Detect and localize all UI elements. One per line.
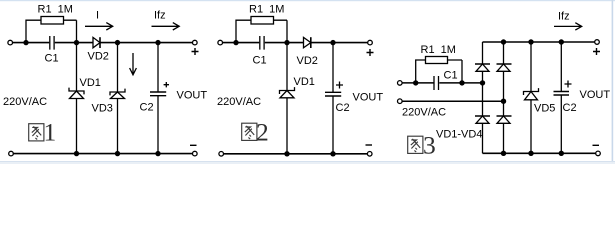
wire: fig3 bottom rail [483, 152, 596, 154]
diode VD2 (fig3 bridge leg2 upper) [503, 42, 505, 64]
svg-text:VD1-VD4: VD1-VD4 [436, 129, 482, 141]
node: fig3 bridge leg2 midpoint [501, 99, 506, 104]
node: fig3 bottom rail at C2 [559, 151, 564, 156]
terminal: fig1 output minus [193, 151, 198, 156]
wire: fig1 input to C1 [13, 42, 50, 44]
svg-text:220V/AC: 220V/AC [217, 96, 261, 108]
wire: fig1 top rail to output [100, 42, 193, 44]
caption fig2 (tu glyph + 2) [242, 123, 257, 140]
wire: fig3 AC line2 to bridge leg2 (crosses leg1) [402, 100, 503, 102]
svg-text:R1 1M: R1 1M [421, 44, 456, 56]
svg-text:I: I [96, 10, 99, 22]
minus sign at fig2 output [366, 144, 373, 146]
wire: fig1 C1 to VD2 [55, 42, 93, 44]
wire: fig3 top rail [483, 41, 595, 43]
capacitor C1 (fig1) [50, 36, 54, 50]
node: fig2 bottom rail at C2 [330, 151, 335, 156]
plus sign at fig3 output terminal [593, 48, 600, 55]
plus sign of C2 (fig3) [565, 81, 572, 88]
node: fig3 junction R1/C1 left [413, 80, 418, 85]
svg-text:R1 1M: R1 1M [249, 4, 284, 16]
svg-text:VOUT: VOUT [580, 89, 611, 101]
capacitor C1 (fig3) [434, 76, 439, 90]
current arrow Ifz (fig3) [554, 23, 582, 30]
node: fig2 bottom rail at VD1 [284, 151, 289, 156]
plus sign at fig1 output terminal [192, 48, 199, 55]
plus sign of C2 (fig1) [164, 82, 169, 87]
node: fig1 bottom rail at VD1 [74, 151, 79, 156]
wire: fig3 AC line1 to C1 [402, 82, 434, 84]
resistor R1 (fig2) [236, 20, 287, 42]
svg-text:C2: C2 [140, 102, 154, 114]
minus sign at fig1 output [190, 144, 197, 146]
terminal: fig3 AC input line2 [398, 99, 403, 104]
svg-text:2: 2 [256, 117, 269, 146]
terminal: fig3 output minus [596, 151, 601, 156]
wire: fig1 bottom rail [13, 153, 192, 155]
zener diode VD3 (fig1, shunt) [117, 43, 119, 92]
svg-text:VD1: VD1 [80, 77, 101, 89]
svg-text:VD5: VD5 [534, 103, 555, 115]
capacitor C2 (fig1, polarized) [157, 43, 159, 92]
node: fig1 top rail at VD3 [115, 40, 120, 45]
caption fig1 (tu glyph + 1) [29, 124, 44, 141]
diode VD4 (fig3 bridge leg2 lower) [497, 115, 512, 117]
minus sign at fig3 output [593, 144, 600, 146]
diode VD1 (fig3 bridge leg1 upper) [482, 42, 484, 64]
node: fig1 bottom rail at VD3 [115, 151, 120, 156]
node: fig1 bottom rail at C2 [155, 151, 160, 156]
svg-text:VD2: VD2 [88, 51, 109, 63]
resistor R1 (fig3) [416, 60, 462, 82]
svg-text:C1: C1 [444, 70, 458, 82]
svg-text:Ifz: Ifz [154, 10, 166, 22]
diode VD2 (fig1, series) [93, 37, 100, 47]
wire: fig2 input to C1 [223, 42, 260, 44]
svg-text:VOUT: VOUT [353, 92, 384, 104]
terminal: fig1 AC input bottom [9, 151, 14, 156]
zener diode VD1 (fig2, shunt) [286, 43, 288, 91]
terminal: fig3 output + [595, 40, 600, 45]
node: fig3 bottom rail at VD5 [528, 151, 533, 156]
svg-text:VD2: VD2 [297, 55, 318, 67]
diode VD3 (fig3 bridge leg1 lower) [475, 115, 490, 117]
svg-text:VOUT: VOUT [177, 90, 208, 102]
resistor R1 (fig1) [26, 20, 77, 42]
svg-text:220V/AC: 220V/AC [402, 107, 446, 119]
node: fig3 junction R1/C1 right [459, 80, 464, 85]
svg-text:R1 1M: R1 1M [38, 4, 73, 16]
current arrow down into C2 (fig1) [130, 53, 137, 75]
terminal: fig2 output + [368, 40, 373, 45]
svg-text:3: 3 [423, 130, 436, 159]
node: fig1 junction R1/C1 right / VD1 [74, 40, 79, 45]
node: fig3 top rail at VD5 [528, 39, 533, 44]
terminal: fig3 AC input line1 [398, 81, 403, 86]
node: fig2 top rail at C2 [330, 40, 335, 45]
svg-text:C2: C2 [336, 102, 350, 114]
zener diode VD1 (fig1, shunt) [76, 43, 78, 91]
wire: fig2 C1 to VD2 [265, 42, 304, 44]
svg-text:C1: C1 [253, 55, 267, 67]
terminal: fig2 output minus [367, 152, 372, 157]
node: fig1 junction R1/C1 left [23, 40, 28, 45]
terminal: fig2 AC input top [218, 40, 223, 45]
node: fig2 junction R1/C1 right / VD1 [284, 40, 289, 45]
svg-text:C1: C1 [45, 53, 59, 65]
capacitor C1 (fig2) [260, 36, 264, 50]
wire: fig2 top rail to output [311, 42, 368, 44]
node: fig3 bridge leg1 midpoint [480, 80, 485, 85]
node: fig3 top rail at leg2 [501, 39, 506, 44]
capacitor C2 (fig2, polarized) [332, 43, 334, 93]
wire: fig3 C1 to bridge leg1 [439, 82, 482, 84]
capacitor C2 (fig3, polarized) [560, 42, 562, 92]
svg-text:VD1: VD1 [294, 76, 315, 88]
diode VD2 (fig2, series) [304, 37, 311, 47]
svg-text:220V/AC: 220V/AC [3, 96, 47, 108]
svg-text:C2: C2 [563, 102, 577, 114]
wire: fig2 bottom rail [224, 153, 368, 155]
node: fig1 top rail at C2 [155, 40, 160, 45]
terminal: fig1 output + [193, 40, 198, 45]
current arrow Ifz (fig1) [152, 23, 180, 30]
node: fig3 top rail at C2 [559, 39, 564, 44]
zener diode VD5 (fig3) [530, 42, 532, 92]
caption fig3 (tu glyph + 3) [408, 136, 423, 153]
svg-text:1: 1 [44, 117, 57, 146]
plus sign at fig2 output terminal [367, 49, 374, 56]
node: fig3 bottom rail at leg2 [501, 151, 506, 156]
current arrow I (fig1) [85, 23, 113, 30]
plus sign of C2 (fig2) [336, 82, 343, 89]
svg-text:VD3: VD3 [92, 103, 113, 115]
node: fig2 junction R1/C1 left [233, 40, 238, 45]
terminal: fig1 AC input top [8, 40, 13, 45]
svg-text:Ifz: Ifz [558, 11, 570, 23]
terminal: fig2 AC input bottom [219, 152, 224, 157]
